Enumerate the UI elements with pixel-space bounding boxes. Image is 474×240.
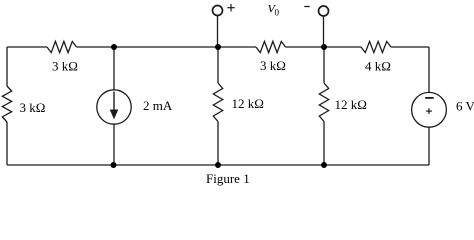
wire 12k column 2 upper: [323, 47, 325, 83]
svg-text:12 kΩ: 12 kΩ: [232, 96, 264, 111]
resistor R6 12k vertical zigzag: [319, 83, 328, 122]
wire 12k column 1 upper: [217, 47, 219, 83]
svg-text:12 kΩ: 12 kΩ: [335, 97, 367, 112]
wire current source column upper: [113, 47, 115, 90]
wire top middle segment 2: [286, 46, 362, 48]
wire bottom rail: [7, 164, 429, 166]
resistor R5 12k vertical zigzag: [213, 83, 222, 122]
svg-text:4 kΩ: 4 kΩ: [365, 59, 391, 74]
svg-text:3 kΩ: 3 kΩ: [260, 58, 286, 73]
resistor R1 3k top-left zigzag: [47, 41, 77, 52]
svg-text:2 mA: 2 mA: [143, 98, 173, 113]
terminal stem right: [323, 16, 325, 47]
wire top-left horizontal: [7, 46, 47, 48]
wire right rail lower: [428, 127, 430, 165]
wire top right segment: [391, 46, 429, 48]
resistor R2 3k middle zigzag: [256, 41, 286, 52]
current source arrow: [110, 92, 118, 119]
node dot bottom C: [321, 162, 327, 168]
wire 12k column 2 lower: [323, 122, 325, 166]
node dot top B: [215, 44, 221, 50]
terminal circle left: [213, 6, 223, 16]
minus sign inside voltage source: [425, 97, 434, 99]
svg-text:0: 0: [275, 7, 280, 17]
resistor R4 3k left vertical zigzag: [2, 86, 11, 122]
node dot top C: [321, 44, 327, 50]
svg-text:3 kΩ: 3 kΩ: [20, 100, 46, 115]
plus sign inside voltage source: [426, 108, 432, 114]
node dot top A: [111, 44, 117, 50]
terminal circle right: [319, 6, 329, 16]
wire top middle segment 1: [77, 46, 257, 48]
wire current source column lower: [113, 124, 115, 165]
resistor R3 4k zigzag: [361, 41, 391, 52]
svg-text:3 kΩ: 3 kΩ: [52, 59, 78, 74]
wire 12k column 1 lower: [217, 122, 219, 166]
terminal stem left: [217, 16, 219, 47]
node dot bottom A: [111, 162, 117, 168]
wire left rail upper: [6, 47, 8, 86]
current source I1 circle: [97, 90, 131, 124]
wire left rail lower: [6, 122, 8, 165]
svg-text:Figure 1: Figure 1: [206, 171, 250, 186]
node dot bottom B: [215, 162, 221, 168]
voltage source V1 circle: [412, 92, 447, 127]
svg-text:6 V: 6 V: [456, 99, 474, 114]
plus sign at left terminal: [227, 4, 234, 11]
minus sign at right terminal: [304, 6, 309, 8]
wire right rail upper: [428, 47, 430, 92]
